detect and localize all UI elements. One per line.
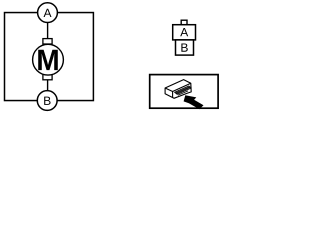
- connector cavity A: [173, 25, 196, 40]
- terminal top: [43, 39, 52, 44]
- node B: [37, 91, 57, 111]
- pin label A: [180, 28, 188, 36]
- motor M1: [33, 44, 64, 75]
- terminal bottom: [43, 74, 52, 79]
- connector cavity B: [176, 40, 194, 55]
- terminal hatch lines: [176, 87, 191, 96]
- connector tab: [181, 20, 187, 25]
- node A: [38, 3, 58, 23]
- pin label B: [181, 43, 187, 51]
- wire loop: [5, 13, 94, 101]
- connector mating flange: [175, 86, 192, 94]
- connector housing (isometric): [165, 80, 191, 99]
- pointer arrow: [184, 95, 204, 109]
- connector view frame: [150, 75, 218, 109]
- wire center vertical: [47, 13, 49, 101]
